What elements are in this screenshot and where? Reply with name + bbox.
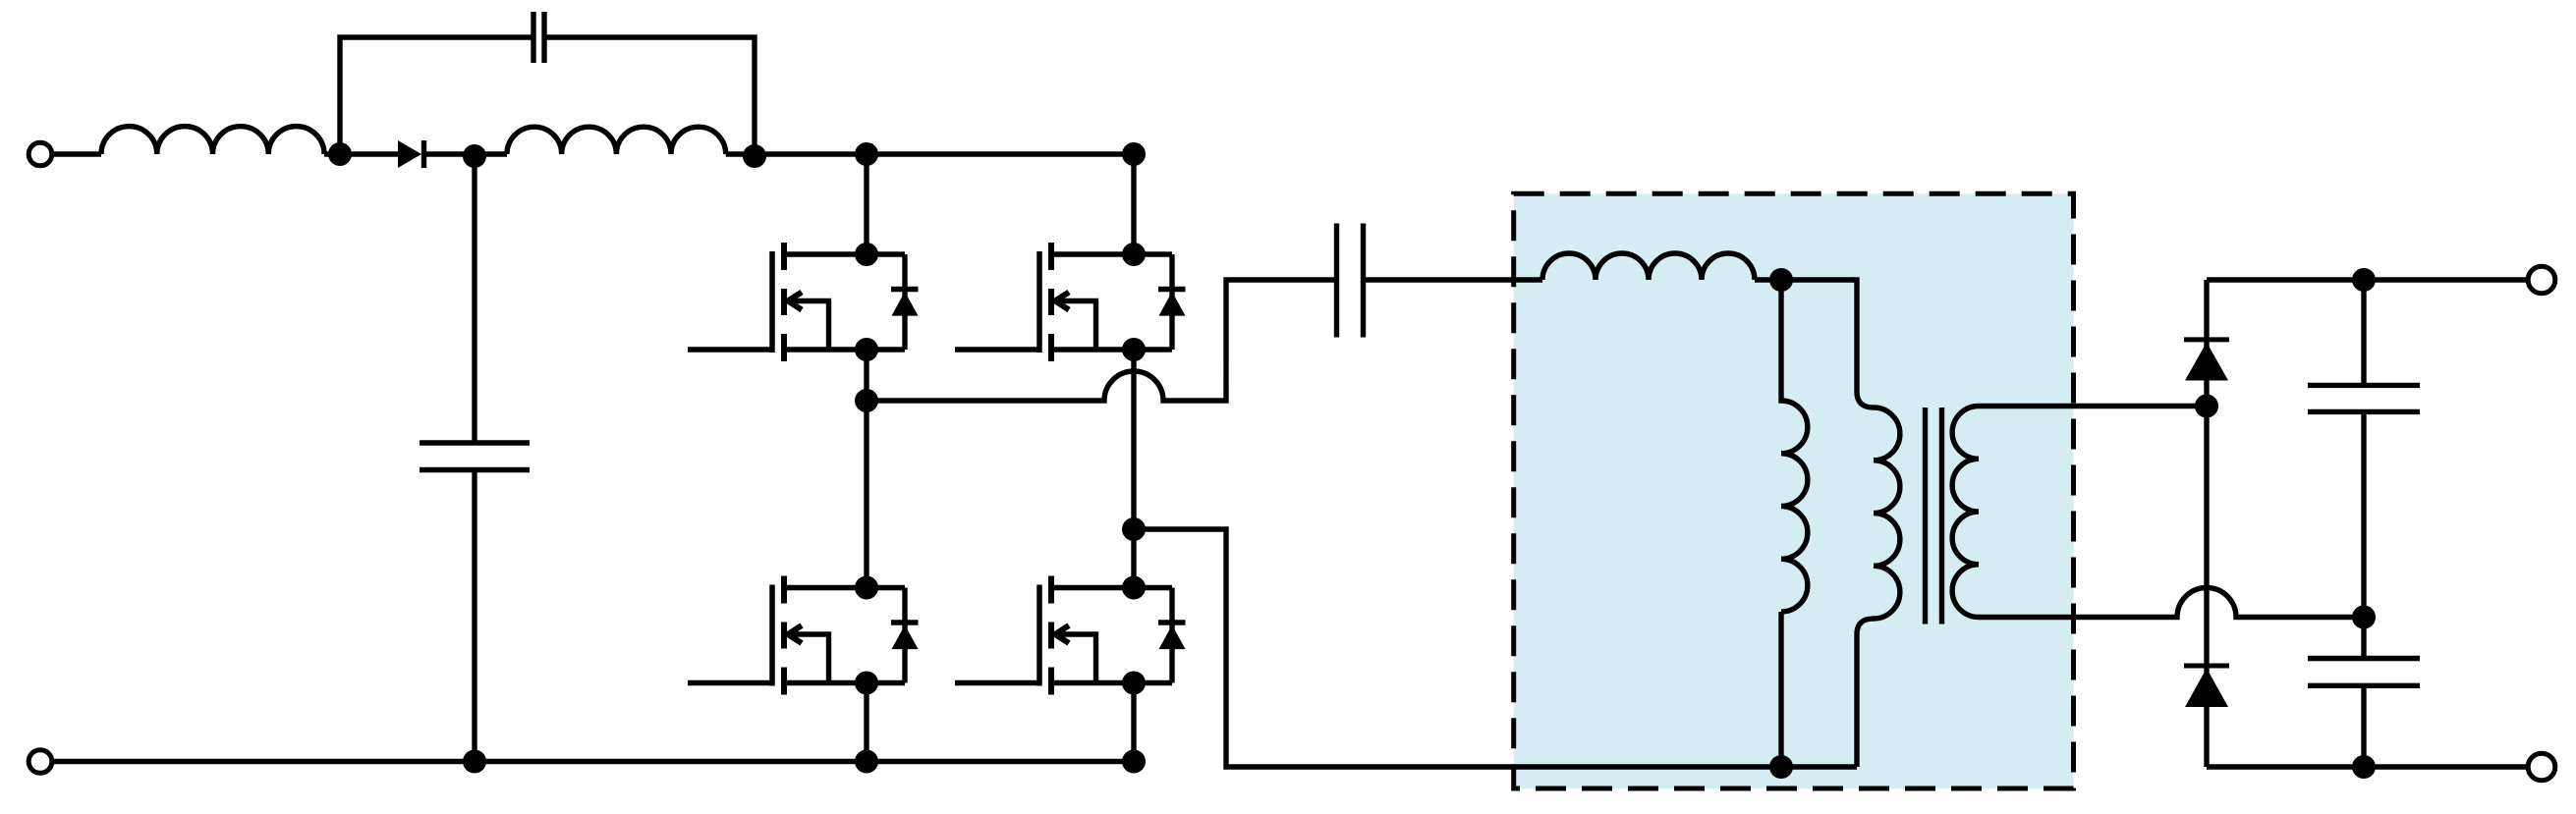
diode D1 <box>398 140 424 168</box>
input terminal bottom <box>28 750 52 774</box>
node output mid <box>2352 606 2376 629</box>
wire D1 to L2 <box>424 151 508 156</box>
capacitor C1 (feedback) <box>533 12 544 63</box>
node output top <box>2352 268 2376 292</box>
node C (tank top) <box>1769 268 1793 292</box>
output terminal top <box>2528 266 2555 294</box>
wire Q2 source to Q4 drain <box>1131 350 1136 588</box>
transistor Q1 <box>688 243 919 361</box>
node B (right bridge midpoint) <box>1122 517 1146 541</box>
wire Q4 source to bottom rail <box>1131 683 1136 762</box>
input terminal top <box>28 142 52 166</box>
output top rail <box>2207 277 2527 282</box>
transformer secondary winding <box>1952 407 2364 618</box>
wire feedback-cap loop right <box>547 37 756 154</box>
output terminal bottom <box>2528 753 2555 781</box>
wire output caps vertical <box>2361 280 2366 767</box>
wire L2 to bridge top rail <box>726 151 1134 156</box>
wire feedback-cap loop left <box>340 37 532 154</box>
node D (tank bottom) <box>1769 755 1793 779</box>
wire node A to series cap (with hop) <box>867 280 1334 401</box>
node Q2 drain <box>1122 243 1146 266</box>
wire Q3 source to bottom rail <box>864 683 868 762</box>
node bottom rail right leg <box>1122 750 1146 774</box>
transformer primary winding <box>1781 280 1900 767</box>
dashed resonant-tank box <box>1514 193 2074 788</box>
node bottom rail at C2 <box>463 750 486 774</box>
node Q3 source <box>855 672 878 695</box>
output bottom rail <box>2207 764 2527 769</box>
inductor L2 <box>507 127 726 154</box>
node top rail right corner <box>1122 142 1146 166</box>
node Q1 drain <box>855 243 878 266</box>
node Q1 source <box>855 338 878 361</box>
transistor Q4 <box>955 576 1186 695</box>
node rectifier mid <box>2195 395 2218 418</box>
wire C3 to L3 <box>1366 277 1542 282</box>
wire top rail to Q2 drain <box>1131 154 1136 254</box>
node top rail left leg <box>855 142 878 166</box>
node A (left bridge midpoint) <box>855 389 878 412</box>
bottom input rail <box>54 759 1134 764</box>
wire Lm bottom to node D <box>1778 612 1783 767</box>
node Q2 source <box>1122 338 1146 361</box>
diode D3 <box>2184 666 2229 707</box>
inductor L1 <box>101 127 324 154</box>
wire input to L1 <box>54 151 101 156</box>
node output bottom <box>2352 755 2376 779</box>
wire N2 down to C2 <box>472 154 476 441</box>
capacitor C3 (series resonant) <box>1337 224 1364 338</box>
node Q3 drain <box>855 576 878 600</box>
node Q4 source <box>1122 672 1146 695</box>
wire L1 to diode D1 <box>324 151 398 156</box>
capacitor Co2 <box>2308 659 2420 686</box>
inductor L3 (resonant) <box>1542 253 1755 280</box>
node N2 <box>463 144 486 168</box>
wire Q1 source to Q3 drain <box>864 350 868 588</box>
rectifier vertical wire <box>2204 280 2209 767</box>
transformer core <box>1926 407 1942 624</box>
diode D2 <box>2184 340 2229 381</box>
wire node B to transformer return <box>1134 529 1857 767</box>
wire L3 to node C <box>1755 277 1781 282</box>
node N3 <box>743 144 766 168</box>
capacitor C2 (input filter) <box>420 443 530 470</box>
wire C2 down to bottom rail <box>472 472 476 762</box>
capacitor Co1 <box>2308 385 2420 411</box>
node Q4 drain <box>1122 576 1146 600</box>
node bottom rail left leg <box>855 750 878 774</box>
wire top rail to Q1 drain <box>864 154 868 254</box>
transistor Q2 <box>955 243 1186 361</box>
transistor Q3 <box>688 576 919 695</box>
node N1 <box>328 142 352 166</box>
inductor Lm (magnetizing) <box>1781 280 1808 612</box>
